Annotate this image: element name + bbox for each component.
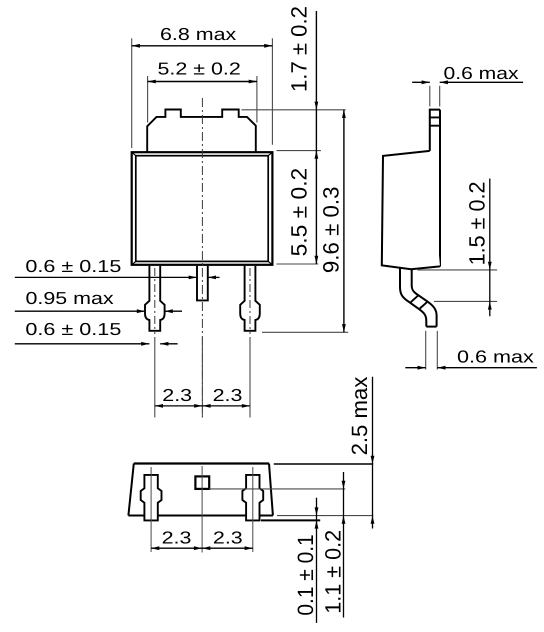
svg-text:1.1 ± 0.2: 1.1 ± 0.2 [320,530,346,614]
6.8 dimension line [132,45,273,47]
0.6 upper left arrow [189,276,197,280]
top edge extension line [274,463,373,465]
bottom 0.6 left extension line [425,331,427,370]
svg-text:1.5 ± 0.2: 1.5 ± 0.2 [464,181,490,265]
svg-text:2.3: 2.3 [162,528,192,548]
bottom view left lead centerline [150,467,152,552]
svg-text:0.1 ± 0.1: 0.1 ± 0.1 [292,534,318,615]
top 0.6 right arrow [440,80,448,84]
2.5 dimension line [372,377,374,529]
6.8 right extension line [271,38,273,145]
5.2 right extension line [256,76,258,123]
2.5 upper arrow [371,456,375,464]
front pitch arrows [155,404,163,408]
0.6 lower left arrow [141,342,149,346]
center pad extension line [209,488,345,490]
top 0.6 left extension line [429,86,431,107]
0.6 lower dimension line left segment [15,343,150,345]
1.7 and 5.5 dimension line [315,11,317,264]
side view tab strip right edge / body right edge [439,110,441,267]
1.5 lower arrow [488,301,492,309]
bottom view body bottom edge [128,515,273,517]
side view tab strip [430,110,440,151]
bottom pitch dimension line [151,547,253,549]
svg-text:2.3: 2.3 [213,385,243,405]
top 0.6 dimension line left segment [412,81,430,83]
0.95 right arrow [165,309,173,313]
front view center lead [197,266,208,301]
bottom pitch arrows [151,546,159,550]
body top extension line [277,150,321,152]
0.6 lower right segment [160,343,177,345]
6.8 right arrow [264,44,272,48]
side view body outline [382,151,440,269]
0.95 right segment [165,310,182,312]
5.2 left extension line [147,76,149,123]
5.5 bottom arrow [315,256,319,264]
1.5 lower extension line [434,300,497,302]
svg-text:0.95 max: 0.95 max [26,288,115,308]
bottom view body right slant [269,464,273,516]
bottom view body left slant [128,464,133,516]
side view bottom lead end [426,326,436,328]
front view vertical centerline [201,98,203,418]
9.6 dimension line [343,110,345,332]
1.1 upper arrow [342,481,346,489]
bottom view right lead [242,475,263,521]
9.6 bottom arrow [342,324,346,332]
side view lead bend tick 1 [411,295,419,302]
0.6 lower right arrow [160,342,168,346]
front view right lead [240,266,260,331]
side view lead bend tick 2 [420,301,428,308]
side view tab crosslines [430,117,440,125]
side view bottom lead left edge [400,268,426,326]
bottom 0.6 right arrow [437,366,445,370]
svg-text:0.6 ± 0.15: 0.6 ± 0.15 [25,256,121,276]
top 0.6 dimension line right segment [440,81,523,83]
0.1 dimension line [316,498,318,623]
6.8 left extension line [131,38,133,148]
svg-text:2.3: 2.3 [162,385,192,405]
2.5 lower arrow [371,516,375,524]
svg-text:6.8 max: 6.8 max [160,24,237,44]
bottom 0.6 dimension line right segment [437,367,537,369]
bottom edge extension line [277,515,373,517]
svg-text:1.7 ± 0.2: 1.7 ± 0.2 [286,6,312,92]
front view body corner chamfers [132,152,273,265]
front pitch right extension line [249,337,251,418]
bottom view center centerline [201,466,203,553]
svg-text:0.6 max: 0.6 max [444,63,519,83]
bottom view left lead [141,475,162,521]
1.7 lower / 5.5 upper arrow (up onto body top line) [315,151,319,159]
bottom view right lead centerline [252,467,254,552]
0.1 upper arrow [315,507,319,515]
lead tip extension line (front) [262,331,348,333]
1.5 upper arrow [488,262,492,270]
1.5 upper extension line [418,269,498,271]
5.2 right arrow [249,80,257,84]
svg-text:0.6 ± 0.15: 0.6 ± 0.15 [25,319,121,339]
front view right lead centerline [249,268,251,334]
front view body outer outline [132,152,273,265]
top 0.6 right extension line [439,86,441,107]
svg-text:0.6 max: 0.6 max [457,347,534,367]
0.6 upper right arrow [208,276,216,280]
front view left lead [145,266,165,331]
front view left lead centerline [154,268,156,334]
1.5 dimension line [489,179,491,317]
svg-text:2.3: 2.3 [213,528,243,548]
bottom 0.6 dimension line left segment [405,367,425,369]
5.2 left arrow [148,80,156,84]
front view body inner outline [136,156,268,262]
front pitch dimension line [155,405,250,407]
tab top extension line [242,109,346,111]
1.1 lower arrow [342,516,346,524]
svg-text:5.5 ± 0.2: 5.5 ± 0.2 [286,168,312,257]
top 0.6 left arrow [422,80,430,84]
9.6 top arrow [342,110,346,118]
6.8 left arrow [132,44,140,48]
svg-text:9.6 ± 0.3: 9.6 ± 0.3 [318,186,344,273]
0.95 dimension line left segment [15,310,145,312]
svg-text:2.5 max: 2.5 max [347,376,373,455]
front view mounting tab outline [147,110,256,153]
lead tip extension line (thick) [261,519,320,521]
1.7 upper arrow (down onto tab top line) [315,102,319,110]
bottom 0.6 right extension line [436,331,438,370]
front pitch left extension line [154,337,156,418]
0.95 left arrow [137,309,145,313]
bottom view body top edge [134,462,269,464]
front pitch center extension line [201,337,203,418]
5.2 dimension line [148,81,257,83]
0.6 upper dimension line left segment [15,276,197,278]
bottom view center lead square [195,476,209,489]
bottom 0.6 left arrow [418,366,426,370]
1.1 dimension line [343,472,345,618]
side view bottom lead right edge [412,269,437,327]
svg-text:5.2 ± 0.2: 5.2 ± 0.2 [158,59,241,79]
0.6 upper right arrow segment [208,276,220,278]
0.1 lower arrow [315,520,319,528]
body bottom extension line [277,263,319,265]
